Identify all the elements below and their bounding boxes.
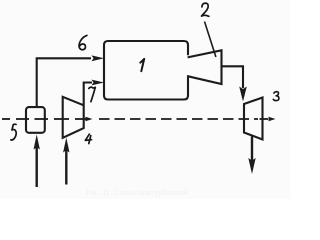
svg-text:Рис. 11. Схема газотурбинной: Рис. 11. Схема газотурбинной <box>86 188 188 197</box>
